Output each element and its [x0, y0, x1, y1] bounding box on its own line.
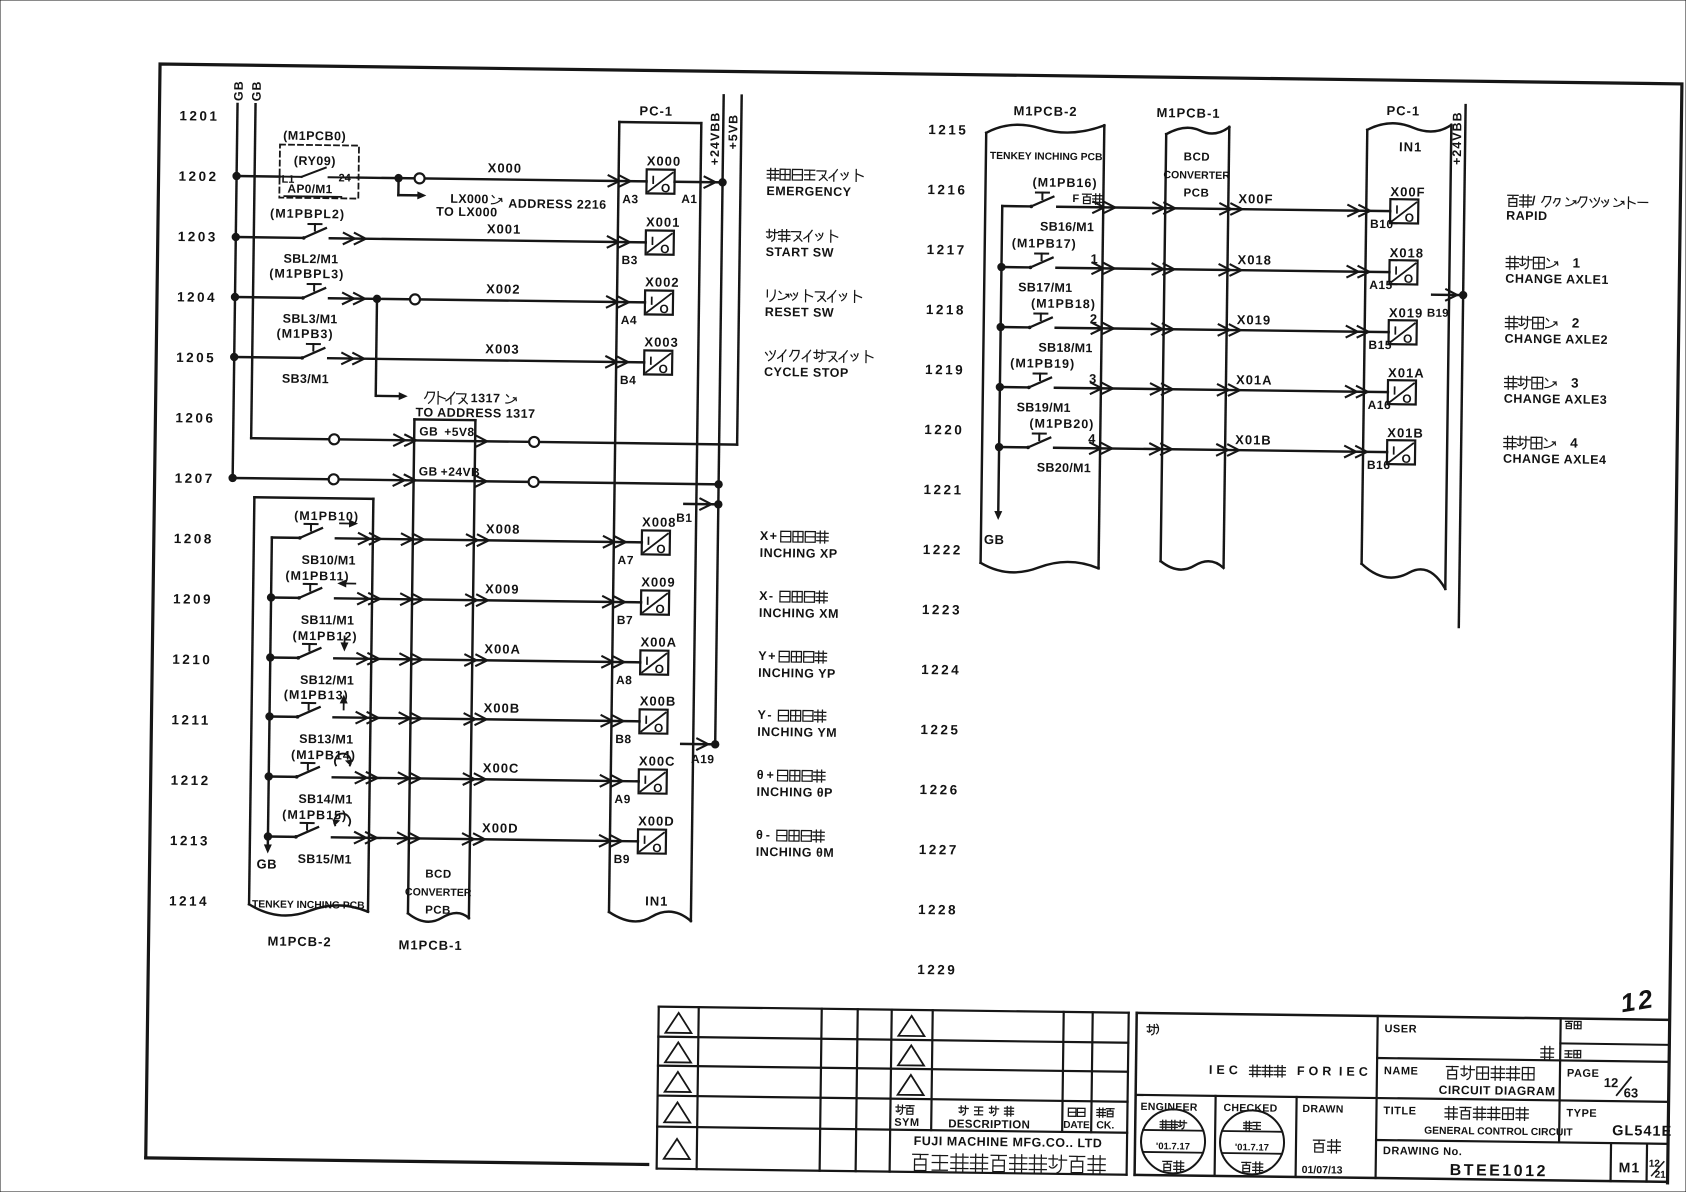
svg-text:TENKEY INCHING PCB: TENKEY INCHING PCB	[252, 899, 365, 911]
svg-text:I: I	[644, 713, 648, 727]
svg-text:SBL3/M1: SBL3/M1	[283, 312, 338, 327]
svg-text:I: I	[649, 354, 653, 368]
svg-text:2: 2	[1572, 316, 1581, 331]
svg-text:SB10/M1: SB10/M1	[301, 553, 355, 568]
svg-text:O: O	[655, 602, 665, 616]
svg-text:SB16/M1: SB16/M1	[1040, 220, 1094, 235]
svg-text:A19: A19	[691, 752, 715, 766]
svg-text:I: I	[1394, 264, 1398, 278]
svg-text:CHANGE AXLE1: CHANGE AXLE1	[1505, 272, 1609, 287]
svg-text:1205: 1205	[176, 350, 216, 366]
svg-text:1219: 1219	[925, 362, 965, 378]
svg-text:CHANGE AXLE2: CHANGE AXLE2	[1504, 332, 1608, 347]
svg-text:PAGE: PAGE	[1567, 1068, 1600, 1080]
svg-text:X00A: X00A	[484, 641, 521, 656]
svg-text:A8: A8	[616, 673, 633, 687]
svg-text:CHANGE AXLE3: CHANGE AXLE3	[1504, 392, 1608, 407]
svg-text:(M1PB16): (M1PB16)	[1032, 175, 1097, 190]
svg-text:1227: 1227	[919, 842, 959, 858]
svg-text:A1: A1	[681, 192, 697, 206]
svg-text:X000: X000	[647, 153, 682, 168]
svg-text:X01B: X01B	[1387, 425, 1424, 440]
svg-text:1209: 1209	[173, 591, 213, 607]
svg-text:TO ADDRESS 1317: TO ADDRESS 1317	[415, 405, 535, 421]
svg-text:Y: Y	[758, 649, 767, 663]
svg-text:M1PCB-1: M1PCB-1	[398, 937, 462, 953]
svg-text:DESCRIPTION: DESCRIPTION	[948, 1118, 1030, 1131]
svg-text:NAME: NAME	[1384, 1065, 1419, 1077]
svg-text:X01A: X01A	[1388, 365, 1425, 380]
svg-text:B8: B8	[615, 732, 632, 746]
svg-text:GB: GB	[250, 80, 264, 101]
svg-text:IN1: IN1	[1399, 139, 1422, 154]
svg-text:ENGINEER: ENGINEER	[1140, 1101, 1198, 1114]
svg-text:1: 1	[1572, 256, 1581, 271]
svg-text:O: O	[661, 181, 671, 195]
svg-text:2: 2	[1090, 311, 1097, 326]
svg-text:GENERAL CONTROL CIRCUIT: GENERAL CONTROL CIRCUIT	[1424, 1126, 1573, 1139]
svg-text:+: +	[770, 529, 777, 543]
svg-text:M1: M1	[1619, 1159, 1641, 1175]
svg-text:X00B: X00B	[484, 700, 521, 715]
svg-text:O: O	[652, 841, 662, 855]
svg-text:1221: 1221	[923, 482, 963, 498]
svg-text:SB13/M1: SB13/M1	[299, 732, 353, 747]
svg-text:SB20/M1: SB20/M1	[1037, 461, 1091, 476]
svg-text:AP0/M1: AP0/M1	[287, 182, 332, 197]
svg-text:）: ）	[1155, 1023, 1166, 1036]
svg-text:63: 63	[1624, 1085, 1639, 1100]
svg-text:PCB: PCB	[425, 905, 451, 917]
svg-text:X003: X003	[485, 341, 520, 356]
svg-text:X00C: X00C	[483, 760, 520, 775]
svg-text:TYPE: TYPE	[1566, 1107, 1597, 1119]
svg-text:A4: A4	[621, 313, 638, 327]
svg-text:GL541E: GL541E	[1612, 1123, 1672, 1140]
svg-text:CK.: CK.	[1096, 1119, 1114, 1131]
svg-text:O: O	[1404, 272, 1414, 286]
svg-text:M1PCB-1: M1PCB-1	[1156, 105, 1220, 121]
svg-text:1: 1	[1090, 251, 1097, 266]
svg-text:1215: 1215	[928, 122, 968, 138]
svg-text:X00D: X00D	[482, 820, 519, 835]
svg-text:SB18/M1: SB18/M1	[1038, 341, 1092, 356]
svg-text:(M1PCB0): (M1PCB0)	[283, 129, 346, 144]
svg-text:(M1PB20): (M1PB20)	[1029, 416, 1094, 431]
svg-text:(M1PB3): (M1PB3)	[276, 327, 333, 342]
svg-text:-: -	[769, 589, 773, 603]
svg-text:1228: 1228	[918, 902, 958, 918]
svg-text:SYM: SYM	[894, 1117, 919, 1129]
svg-text:RESET SW: RESET SW	[765, 305, 834, 320]
svg-text:O: O	[656, 542, 666, 556]
svg-text:(M1PB11): (M1PB11)	[285, 569, 349, 584]
svg-text:1206: 1206	[175, 410, 215, 426]
svg-text:X01A: X01A	[1236, 372, 1273, 387]
svg-text:(M1PB19): (M1PB19)	[1010, 356, 1075, 371]
svg-text:ADDRESS 2216: ADDRESS 2216	[508, 197, 607, 212]
svg-text:X: X	[760, 529, 769, 543]
svg-text:1214: 1214	[169, 893, 209, 909]
svg-text:B1: B1	[676, 511, 693, 525]
svg-text:CYCLE STOP: CYCLE STOP	[764, 365, 849, 380]
svg-text:PCB: PCB	[1183, 187, 1209, 199]
svg-text:IN1: IN1	[645, 893, 668, 908]
svg-text:1213: 1213	[170, 833, 210, 849]
svg-text:O: O	[1401, 452, 1411, 466]
svg-text:+24VBB: +24VBB	[1450, 111, 1465, 165]
svg-text:+: +	[768, 649, 775, 663]
svg-text:1211: 1211	[171, 712, 210, 728]
svg-text:CONVERTER: CONVERTER	[405, 886, 472, 899]
svg-text:θ: θ	[757, 768, 764, 782]
svg-text:21: 21	[1655, 1170, 1667, 1181]
svg-text:B9: B9	[614, 852, 631, 866]
svg-text:INCHING XM: INCHING XM	[759, 606, 839, 621]
svg-text:X: X	[759, 589, 768, 603]
svg-text:SB3/M1: SB3/M1	[282, 372, 329, 387]
svg-text:GB: GB	[256, 856, 277, 871]
svg-text:B4: B4	[620, 373, 637, 387]
svg-text:+24VBB: +24VBB	[708, 112, 723, 166]
svg-text:(M1PB17): (M1PB17)	[1012, 236, 1077, 251]
svg-text:+: +	[767, 768, 774, 782]
svg-text:-: -	[766, 828, 770, 842]
svg-text:INCHING YP: INCHING YP	[758, 666, 836, 681]
svg-text:DRAWING No.: DRAWING No.	[1383, 1145, 1463, 1158]
svg-text:1204: 1204	[177, 289, 217, 305]
svg-text:(M1PB13): (M1PB13)	[284, 688, 349, 703]
svg-text:X00C: X00C	[639, 753, 676, 768]
svg-text:I: I	[1394, 324, 1398, 338]
svg-text:1201: 1201	[179, 108, 219, 124]
svg-text:1216: 1216	[927, 182, 967, 198]
svg-text:1217: 1217	[927, 242, 967, 258]
svg-text:SB11/M1: SB11/M1	[301, 613, 355, 628]
svg-text:FOR: FOR	[1297, 1064, 1336, 1079]
svg-text:1218: 1218	[926, 302, 966, 318]
svg-text:B16: B16	[1367, 458, 1391, 472]
svg-text:I: I	[1392, 444, 1396, 458]
svg-text:X001: X001	[646, 214, 681, 229]
svg-text:PC-1: PC-1	[639, 103, 673, 118]
svg-text:A15: A15	[1369, 278, 1393, 292]
svg-text:1225: 1225	[920, 722, 960, 738]
svg-text:X01B: X01B	[1235, 432, 1272, 447]
svg-text:X009: X009	[485, 581, 520, 596]
svg-text:RAPID: RAPID	[1506, 209, 1548, 224]
svg-text:PC-1: PC-1	[1386, 103, 1420, 118]
svg-text:'01.7.17: '01.7.17	[1156, 1141, 1190, 1152]
svg-text:SB15/M1: SB15/M1	[298, 852, 352, 867]
svg-text:01/07/13: 01/07/13	[1302, 1164, 1343, 1177]
svg-text:O: O	[660, 242, 670, 256]
svg-text:X002: X002	[645, 274, 680, 289]
svg-text:1226: 1226	[920, 782, 960, 798]
svg-text:B19: B19	[1427, 308, 1449, 320]
svg-text:I: I	[647, 534, 651, 548]
svg-text:/: /	[1532, 193, 1537, 208]
svg-text:USER: USER	[1384, 1023, 1417, 1035]
svg-text:INCHING θM: INCHING θM	[756, 845, 835, 860]
svg-text:B10: B10	[1370, 217, 1394, 231]
svg-text:12: 12	[1618, 983, 1657, 1018]
svg-text:1222: 1222	[923, 542, 963, 558]
svg-text:X002: X002	[486, 281, 521, 296]
svg-text:(M1PBPL2): (M1PBPL2)	[270, 206, 345, 221]
svg-text:X00F: X00F	[1390, 184, 1425, 199]
svg-text:CONVERTER: CONVERTER	[1163, 169, 1230, 182]
svg-text:1203: 1203	[178, 229, 218, 245]
svg-text:IEC: IEC	[1209, 1063, 1242, 1077]
svg-text:O: O	[659, 302, 669, 316]
svg-text:A16: A16	[1368, 398, 1392, 412]
svg-text:SB17/M1: SB17/M1	[1018, 280, 1072, 295]
svg-text:TENKEY INCHING PCB: TENKEY INCHING PCB	[990, 151, 1103, 163]
svg-text:3: 3	[1571, 375, 1580, 390]
svg-text:X003: X003	[644, 334, 679, 349]
svg-text:INCHING YM: INCHING YM	[757, 725, 837, 740]
svg-text:B7: B7	[617, 613, 634, 627]
svg-text:X00F: X00F	[1238, 191, 1273, 206]
svg-text:4: 4	[1570, 435, 1579, 450]
svg-text:X019: X019	[1237, 312, 1272, 327]
svg-text:I: I	[646, 594, 650, 608]
svg-text:A3: A3	[622, 192, 639, 206]
svg-text:X008: X008	[486, 521, 521, 536]
svg-text:1220: 1220	[924, 422, 964, 438]
svg-text:A9: A9	[614, 792, 631, 806]
svg-text:B15: B15	[1368, 338, 1392, 352]
svg-text:X000: X000	[488, 160, 523, 175]
svg-text:SB14/M1: SB14/M1	[298, 792, 352, 807]
svg-text:B3: B3	[621, 253, 638, 267]
svg-text:1210: 1210	[172, 652, 212, 668]
svg-text:+24VB: +24VB	[441, 465, 481, 480]
svg-text:I: I	[1393, 384, 1397, 398]
svg-text:X008: X008	[642, 514, 677, 529]
svg-text:1212: 1212	[171, 773, 211, 789]
svg-text:1229: 1229	[917, 962, 957, 978]
svg-text:INCHING XP: INCHING XP	[760, 546, 838, 561]
svg-text:X00A: X00A	[640, 634, 677, 649]
svg-text:O: O	[659, 362, 669, 376]
svg-text:'01.7.17: '01.7.17	[1235, 1142, 1269, 1153]
svg-text:I: I	[651, 234, 655, 248]
svg-text:1207: 1207	[175, 471, 215, 487]
svg-text:IEC: IEC	[1339, 1065, 1372, 1079]
svg-text:M1PCB-2: M1PCB-2	[1013, 103, 1077, 119]
svg-text:CHECKED: CHECKED	[1223, 1102, 1277, 1115]
svg-text:SB19/M1: SB19/M1	[1017, 400, 1071, 415]
svg-text:BCD: BCD	[425, 869, 452, 881]
svg-text:TITLE: TITLE	[1383, 1105, 1416, 1117]
svg-text:O: O	[1403, 332, 1413, 346]
svg-text:X018: X018	[1390, 245, 1425, 260]
svg-text:FUJI MACHINE MFG.CO.. LTD: FUJI MACHINE MFG.CO.. LTD	[914, 1134, 1103, 1150]
svg-text:(M1PB12): (M1PB12)	[292, 629, 357, 644]
svg-text:F: F	[1072, 193, 1079, 205]
svg-text:12: 12	[1604, 1075, 1619, 1090]
svg-text:1223: 1223	[922, 602, 962, 618]
svg-text:CIRCUIT DIAGRAM: CIRCUIT DIAGRAM	[1439, 1083, 1556, 1099]
svg-text:1208: 1208	[174, 531, 214, 547]
svg-text:DATE: DATE	[1063, 1120, 1090, 1131]
svg-text:4: 4	[1088, 431, 1096, 446]
svg-text:GB: GB	[232, 80, 246, 101]
svg-text:I: I	[650, 294, 654, 308]
svg-text:BTEE1012: BTEE1012	[1450, 1162, 1548, 1180]
svg-text:START SW: START SW	[766, 245, 835, 260]
svg-text:GB: GB	[984, 532, 1005, 547]
svg-text:GB: GB	[419, 464, 438, 478]
svg-text:1317: 1317	[471, 391, 501, 405]
svg-text:CHANGE AXLE4: CHANGE AXLE4	[1503, 452, 1607, 467]
svg-text:A7: A7	[618, 553, 635, 567]
svg-text:+5VB: +5VB	[726, 114, 740, 150]
svg-text:(M1PBPL3): (M1PBPL3)	[269, 266, 344, 281]
svg-text:SB12/M1: SB12/M1	[300, 673, 354, 688]
svg-text:Y: Y	[757, 708, 766, 722]
svg-text:O: O	[654, 721, 664, 735]
svg-text:O: O	[1402, 392, 1412, 406]
svg-text:I: I	[645, 654, 649, 668]
svg-text:O: O	[653, 781, 663, 795]
svg-text:-: -	[767, 708, 771, 722]
svg-text:O: O	[1405, 211, 1415, 225]
svg-text:1224: 1224	[921, 662, 961, 678]
svg-text:X019: X019	[1389, 305, 1424, 320]
svg-text:X009: X009	[641, 574, 676, 589]
svg-text:(RY09): (RY09)	[294, 154, 336, 169]
svg-text:3: 3	[1089, 371, 1096, 386]
svg-text:1202: 1202	[178, 169, 218, 185]
svg-text:O: O	[655, 662, 665, 676]
svg-text:I: I	[1395, 203, 1399, 217]
svg-text:X00D: X00D	[638, 813, 675, 828]
svg-text:I: I	[651, 173, 655, 187]
svg-text:TO LX000: TO LX000	[436, 205, 498, 220]
svg-text:SBL2/M1: SBL2/M1	[283, 252, 338, 267]
svg-text:X00B: X00B	[640, 693, 677, 708]
svg-text:I: I	[643, 833, 647, 847]
svg-text:X018: X018	[1237, 252, 1272, 267]
svg-text:DRAWN: DRAWN	[1302, 1103, 1343, 1116]
svg-text:θ: θ	[756, 828, 763, 842]
svg-text:INCHING θP: INCHING θP	[756, 785, 833, 800]
svg-text:+5V8: +5V8	[444, 425, 475, 439]
svg-text:BCD: BCD	[1184, 151, 1211, 163]
svg-text:EMERGENCY: EMERGENCY	[766, 184, 851, 199]
svg-text:(M1PB18): (M1PB18)	[1031, 296, 1096, 311]
svg-text:I: I	[644, 773, 648, 787]
svg-text:GB: GB	[419, 424, 438, 438]
svg-text:M1PCB-2: M1PCB-2	[267, 933, 331, 949]
svg-text:X001: X001	[487, 221, 522, 236]
